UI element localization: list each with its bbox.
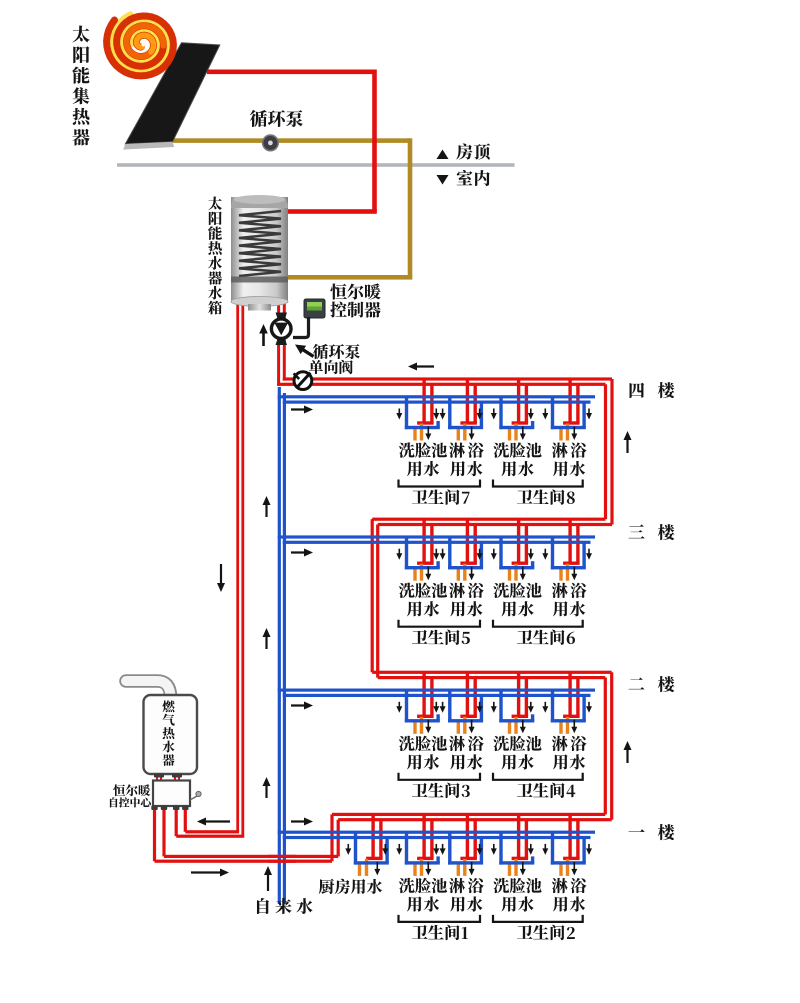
flow arrows at fixture x=552.5 floor 3 [542,549,592,581]
label: 太阳能热水器水箱 (vertical) [208,197,222,315]
faucet stubs: floor 1 bathroom 1 washbasin [413,859,423,876]
roof marker ▲房顶 [437,150,449,160]
floor 1 fixture labels [319,878,587,912]
sun spiral yellow glow [112,14,169,71]
faucet stubs: floor 2 bathroom 4 washbasin [508,717,518,734]
faucet stubs: floor 4 bathroom 7 washbasin [413,424,423,441]
cold water drop loop: floor 2 bathroom 4 washbasin [499,690,534,722]
label: 自来水 tap water [257,898,313,914]
tank riser to heater link horizontals [185,830,239,833]
heater left port pipes [153,806,156,861]
flow arrows at fixture x=406.5 floor 3 [396,549,439,581]
floor 4 bathroom brackets and names [399,480,481,487]
hot water drop loop: floor 4 bathroom 7 washbasin [417,379,434,425]
label: 循环泵 (roof pump) [250,110,303,127]
hot supply crossing over cold main (heater line) [268,855,296,858]
cold water drop loop: floor 2 bathroom 3 washbasin [405,690,440,722]
label: 单向阀 check valve [309,360,353,374]
circulation pump on tan pipe (roof) [263,135,279,151]
floor 1 bathroom brackets and names [399,915,481,922]
floor 4 cold headers [278,395,595,398]
indoor marker ▼室内 [437,175,449,185]
right-flow arrow floor 1 [291,820,308,822]
cold water drop loop: floor 1 bathroom 1 shower [448,832,483,864]
label: solar collector 太阳能集热器 (vertical) [72,26,89,146]
cold water drop loop: floor 2 bathroom 3 shower [448,690,483,722]
flow arrows at fixture x=406.5 floor 2 [396,702,439,734]
tan pipe: collector bottom to tank (with pump) [168,138,410,143]
right-flow arrow floor 2 [291,704,308,706]
hot water drop loop: floor 1 bathroom 1 shower [460,814,477,860]
floor 3 hot headers [372,518,605,521]
flow arrows at fixture x=552.5 floor 1 [542,844,592,876]
hot water drop loop: floor 1 bathroom 1 washbasin [417,814,434,860]
flow arrows at fixture x=449.8 floor 1 [440,844,483,876]
floor 4 hot headers [283,377,612,380]
faucet stubs: floor 3 bathroom 6 washbasin [508,564,518,581]
sun spiral symbol [107,16,174,76]
faucet stubs: floor 2 bathroom 3 washbasin [413,717,423,734]
hot water drop loop: floor 4 bathroom 8 shower [563,379,580,425]
flow arrows at fixture x=449.8 floor 3 [440,549,483,581]
faucet stubs: floor 1 bathroom 1 shower [457,859,467,876]
faucet stubs: floor 3 bathroom 5 shower [457,564,467,581]
floor1 left pillars down to gas heater line [330,814,333,861]
label: 恒尔暖 自控中心 [110,784,151,807]
hot water drop loop: floor 4 bathroom 7 shower [460,379,477,425]
faucet stubs: floor 4 bathroom 8 washbasin [508,424,518,441]
arrow up beside pump [262,330,265,346]
flow arrows at fixture x=501.0 floor 1 [491,844,534,876]
right-flow arrow floor 3 [291,551,308,553]
cold water drop loop: floor 4 bathroom 8 washbasin [499,397,534,429]
right risers floor4->floor3 [610,379,613,525]
floor 3 cold headers [278,535,595,538]
faucet stubs: floor 2 bathroom 3 shower [457,717,467,734]
tank heat-exchange coil [239,211,281,276]
label: floor 1 [629,824,675,840]
flow arrows at fixture x=501.0 floor 3 [491,549,534,581]
hot water drop loop: floor 3 bathroom 6 shower [563,519,580,565]
cold water main risers [278,387,281,904]
hot water drop loop: floor 2 bathroom 3 shower [460,672,477,718]
solar collector panel [125,43,220,144]
cold water drop loop: floor 1 bathroom 2 washbasin [499,832,534,864]
cold water drop loop: floor 3 bathroom 5 shower [448,537,483,569]
flow arrows [413,365,434,367]
roof line (gray) [117,163,515,167]
red pipe: collector top to tank [207,70,375,75]
right risers floor2->floor1 [610,672,613,819]
floor 3 fixture labels [399,583,587,617]
tap water up arrow [267,871,269,891]
circulation pump below tank [276,313,288,319]
label: floor 3 [629,524,675,540]
up arrows along risers [265,501,267,517]
hot water drop loop: floor 2 bathroom 4 washbasin [512,672,529,718]
heater flow arrows [202,820,230,822]
hot water drop loop: floor 2 bathroom 4 shower [563,672,580,718]
right-flow arrow floor 4 [291,408,308,410]
cold water drop loop: floor 1 kitchen [354,832,389,864]
floor 1 cold headers [278,831,595,834]
left risers floor3->floor2 [371,519,374,672]
flow arrows at fixture x=552.5 floor 2 [542,702,592,734]
flow arrows at fixture x=501.0 floor 2 [491,702,534,734]
floor 4 fixture labels [399,442,587,476]
cold water drop loop: floor 3 bathroom 5 washbasin [405,537,440,569]
controller box 恒尔暖自控中心 [153,781,190,807]
cold water drop loop: floor 1 bathroom 1 washbasin [405,832,440,864]
flow arrows at fixture x=406.5 floor 1 [396,844,439,876]
faucet stubs: floor 1 bathroom 2 washbasin [508,859,518,876]
check valve symbol [294,372,312,390]
label: floor 4 [630,382,675,398]
up arrows right side [626,436,628,453]
controller wire to pump [293,317,309,338]
faucet stubs: floor 4 bathroom 8 shower [559,424,569,441]
faucet stubs: floor 1 kitchen [358,859,368,876]
cold water drop loop: floor 3 bathroom 6 shower [551,537,586,569]
heater port fittings [154,774,164,778]
hot water drop loop: floor 2 bathroom 3 washbasin [417,672,434,718]
hot water drop loop: floor 4 bathroom 8 washbasin [512,379,529,425]
flow arrows at fixture x=355.5 floor 1 [345,844,388,876]
tank-to-pump pipes [277,303,280,386]
cold water drop loop: floor 2 bathroom 4 shower [551,690,586,722]
controller 恒尔暖控制器 [304,299,325,318]
flow arrows at fixture x=552.5 floor 4 [542,409,592,441]
cold water drop loop: floor 4 bathroom 8 shower [551,397,586,429]
gas heater supply horizontals [164,855,338,858]
hot supply+return risers from tank bottom (left pair) [236,303,239,832]
hot water drop loop: floor 1 bathroom 2 shower [563,814,580,860]
flow arrows at fixture x=406.5 floor 4 [396,409,439,441]
gas water heater 燃气热水器 [126,681,171,697]
hot water drop loop: floor 1 bathroom 2 washbasin [512,814,529,860]
floor 2 cold headers [278,689,595,692]
label: 循环泵 (tank pump) [313,344,360,359]
down arrow along hot riser [220,564,222,587]
callout arrow to pump [300,348,314,357]
hot water drop loop: floor 3 bathroom 6 washbasin [512,519,529,565]
hot water drop loop: floor 1 kitchen [366,814,383,860]
hot water drop loop: floor 3 bathroom 5 washbasin [417,519,434,565]
faucet stubs: floor 3 bathroom 5 washbasin [413,564,423,581]
faucet stubs: floor 4 bathroom 7 shower [457,424,467,441]
faucet stubs: floor 1 bathroom 2 shower [559,859,569,876]
cold water drop loop: floor 1 bathroom 2 shower [551,832,586,864]
floor 2 hot headers [372,671,612,674]
cold water drop loop: floor 4 bathroom 7 washbasin [405,397,440,429]
cold water drop loop: floor 3 bathroom 6 washbasin [499,537,534,569]
flow arrows at fixture x=501.0 floor 4 [491,409,534,441]
faucet stubs: floor 2 bathroom 4 shower [559,717,569,734]
heater right port pipes [175,806,178,836]
floor 2 fixture labels [399,736,587,770]
hot water drop loop: floor 3 bathroom 5 shower [460,519,477,565]
cold water drop loop: floor 4 bathroom 7 shower [448,397,483,429]
heater to control box connections [156,773,158,782]
label: 恒尔暖 控制器 [330,283,381,317]
flow arrows at fixture x=449.8 floor 2 [440,702,483,734]
faucet stubs: floor 3 bathroom 6 shower [559,564,569,581]
label: floor 2 [629,676,675,692]
floor 1 hot headers [332,813,605,816]
flow arrows at fixture x=449.8 floor 4 [440,409,483,441]
storage tank 太阳能热水器水箱 [231,197,288,303]
floor 3 bathroom brackets and names [399,620,481,627]
floor 2 bathroom brackets and names [399,773,481,780]
